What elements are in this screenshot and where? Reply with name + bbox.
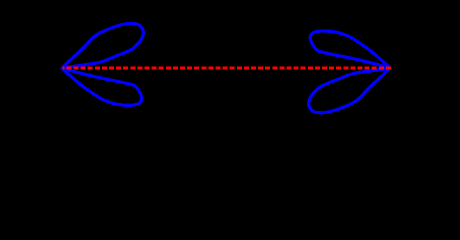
left lower lobe xyxy=(62,68,141,105)
node B: right radiation pattern (180-degree rotated copy) xyxy=(309,31,390,113)
right lower lobe (rotated upper) xyxy=(309,68,390,112)
node A: left radiation pattern (two blue lobes) xyxy=(62,23,143,105)
wire: red dashed axis line between cusps xyxy=(63,67,392,70)
right upper lobe (rotated lower) xyxy=(310,31,389,68)
left upper lobe xyxy=(62,23,143,67)
